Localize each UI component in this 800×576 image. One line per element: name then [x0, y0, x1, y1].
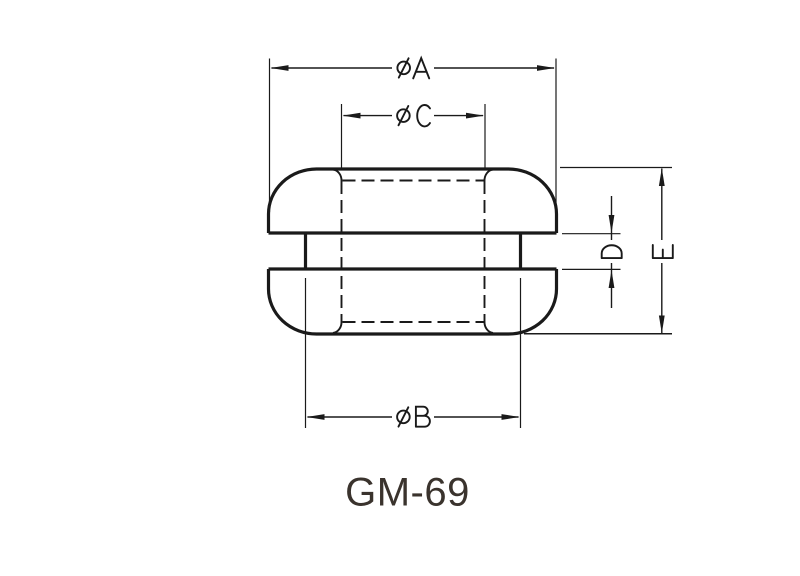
dim D arrow upper: [609, 215, 615, 233]
dim D arrow lower: [609, 270, 615, 288]
hidden counterbore bottom (dashed): [343, 321, 485, 323]
dim C line left segment: [344, 115, 393, 117]
svg-text:GM-69: GM-69: [345, 471, 470, 515]
dim A extension line left: [269, 59, 271, 213]
dim B line left segment: [308, 416, 393, 418]
label E (rotated): [653, 245, 673, 258]
dim A extension line right: [555, 59, 557, 213]
dim D extension line upper: [562, 233, 621, 235]
hole fillet bottom-left: [333, 322, 342, 334]
bottom flange outline: [269, 269, 557, 334]
label D (rotated): [602, 245, 622, 258]
groove right edge: [519, 233, 522, 269]
dim A line right segment: [434, 67, 554, 69]
top flange outline: [269, 169, 557, 233]
hole fillet top-left: [333, 170, 342, 182]
dim B arrow right: [502, 414, 520, 420]
dim A arrow right: [537, 65, 555, 71]
dim B arrow left: [307, 414, 325, 420]
dim B line right segment: [434, 416, 519, 418]
dim A arrow left: [271, 65, 289, 71]
dim E line lower segment: [661, 263, 663, 333]
hidden hole line left (dashed): [341, 181, 343, 322]
dim D extension line lower: [562, 268, 621, 270]
dim C extension line right: [484, 104, 486, 169]
dim D line upper stub and shaft: [611, 196, 613, 240]
label diameter-A: [397, 58, 429, 78]
hole fillet top-right: [484, 170, 493, 182]
dim E extension line bottom: [524, 333, 672, 335]
groove left edge: [304, 233, 307, 269]
label diameter-B: [397, 407, 430, 427]
hidden hole line right (dashed): [484, 181, 486, 322]
hole fillet bottom-right: [484, 322, 493, 334]
dim A line left segment: [272, 67, 393, 69]
hidden counterbore top (dashed): [343, 180, 485, 182]
dim B extension line left: [305, 278, 307, 428]
dim E arrow bottom: [659, 316, 665, 334]
dim C arrow left: [343, 113, 361, 119]
dim C arrow right: [466, 113, 484, 119]
bottom flange top edge: [269, 267, 557, 270]
top flange bottom edge: [269, 231, 557, 234]
dim E line upper segment: [661, 169, 663, 241]
dim B extension line right: [520, 278, 522, 428]
dim E arrow top: [659, 168, 665, 186]
dim D line lower stub and shaft: [611, 263, 613, 308]
dim E extension line top: [560, 167, 672, 169]
label diameter-C: [397, 105, 430, 126]
dim C extension line left: [341, 104, 343, 169]
dim C line right segment: [434, 115, 483, 117]
